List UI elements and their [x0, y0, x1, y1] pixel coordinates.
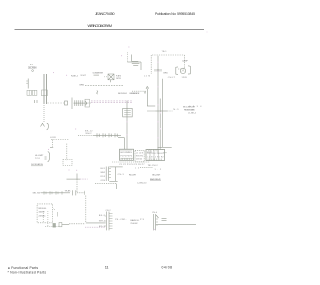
svg-text:11: 11 — [105, 264, 109, 269]
svg-text:N.O: N.O — [173, 109, 178, 111]
svg-text:BROIL EL: BROIL EL — [39, 208, 48, 210]
svg-text:WIRING DIAGRAM: WIRING DIAGRAM — [88, 24, 113, 28]
svg-text:RD-WH: RD-WH — [129, 174, 136, 176]
svg-text:P1 P2 P3 P4 P5 P6 P7: P1 P2 P3 P4 P5 P6 P7 — [120, 164, 146, 166]
svg-text:MTR: MTR — [116, 78, 121, 80]
svg-text:GRD: GRD — [163, 73, 168, 75]
svg-text:L2-RD-10: L2-RD-10 — [137, 182, 147, 184]
svg-text:TH-BK: TH-BK — [65, 191, 72, 193]
svg-text:SEL SW: SEL SW — [33, 192, 42, 194]
svg-text:* Non-Illustrated Parts: * Non-Illustrated Parts — [8, 270, 47, 274]
svg-text:RY1 RY2: RY1 RY2 — [136, 156, 143, 158]
svg-text:LOCK: LOCK — [50, 137, 57, 139]
svg-text:1 2 3 4: 1 2 3 4 — [189, 106, 202, 108]
svg-text:DOOR LATCH: DOOR LATCH — [31, 163, 43, 166]
svg-text:RD-3: RD-3 — [99, 226, 106, 228]
svg-text:04/08: 04/08 — [162, 265, 173, 269]
svg-text:TB L1 N L2: TB L1 N L2 — [148, 165, 159, 167]
svg-text:DOOR SW: DOOR SW — [28, 67, 37, 70]
svg-text:P4 - CN2 -: P4 - CN2 - — [115, 219, 126, 221]
svg-text:3400W: 3400W — [39, 211, 45, 213]
svg-text:120V: 120V — [182, 77, 188, 79]
svg-text:CN-3: CN-3 — [118, 174, 125, 176]
svg-text:OVEN SENSOR: OVEN SENSOR — [129, 93, 140, 95]
svg-text:L1-BK-2: L1-BK-2 — [188, 113, 197, 115]
svg-text:BAKE EL: BAKE EL — [130, 219, 140, 222]
svg-text:CN-2: CN-2 — [106, 210, 111, 212]
svg-text:P1 P2 P3 P4: P1 P2 P3 P4 — [121, 156, 133, 158]
svg-text:WH-2: WH-2 — [86, 133, 93, 135]
svg-text:LAMP: LAMP — [182, 60, 188, 63]
svg-text:OV-LT: OV-LT — [168, 77, 176, 79]
svg-text:TB-1: TB-1 — [162, 51, 168, 53]
svg-text:240VAC: 240VAC — [39, 214, 47, 217]
svg-text:R-BK-2: R-BK-2 — [71, 75, 79, 77]
svg-text:BK-2 WH-1: BK-2 WH-1 — [118, 93, 128, 95]
svg-text:2500W: 2500W — [130, 223, 138, 225]
svg-text:L1 N: L1 N — [144, 75, 150, 77]
svg-text:RELAY BOARD: RELAY BOARD — [184, 109, 195, 112]
svg-text:RY-1 RY-2 DLB K3: RY-1 RY-2 DLB K3 — [148, 153, 164, 155]
svg-text:BK-2-WH: BK-2-WH — [152, 175, 160, 177]
svg-text:BK-2: BK-2 — [99, 215, 106, 217]
svg-text:WHT: WHT — [81, 75, 87, 77]
svg-text:TCO: TCO — [35, 158, 40, 160]
svg-text:CONV MOTOR: CONV MOTOR — [93, 73, 104, 75]
svg-text:CN-4: CN-4 — [152, 212, 157, 214]
svg-text:EOC CONTROL: EOC CONTROL — [121, 152, 133, 154]
svg-text:1 . 2: 1 . 2 — [155, 169, 162, 171]
svg-text:JEANC79-050: JEANC79-050 — [95, 12, 115, 16]
svg-text:L1 N L2 H1 H2: L1 N L2 H1 H2 — [148, 157, 164, 159]
svg-text:HI-LIMIT: HI-LIMIT — [35, 155, 44, 157]
svg-text:BRN: BRN — [80, 84, 85, 86]
svg-text:WH-1: WH-1 — [99, 221, 106, 223]
svg-text:L1 L2 N: L1 L2 N — [136, 153, 144, 155]
svg-text:DLB 40: DLB 40 — [136, 159, 142, 161]
svg-text:Publication No: 5995510845: Publication No: 5995510845 — [155, 12, 195, 16]
